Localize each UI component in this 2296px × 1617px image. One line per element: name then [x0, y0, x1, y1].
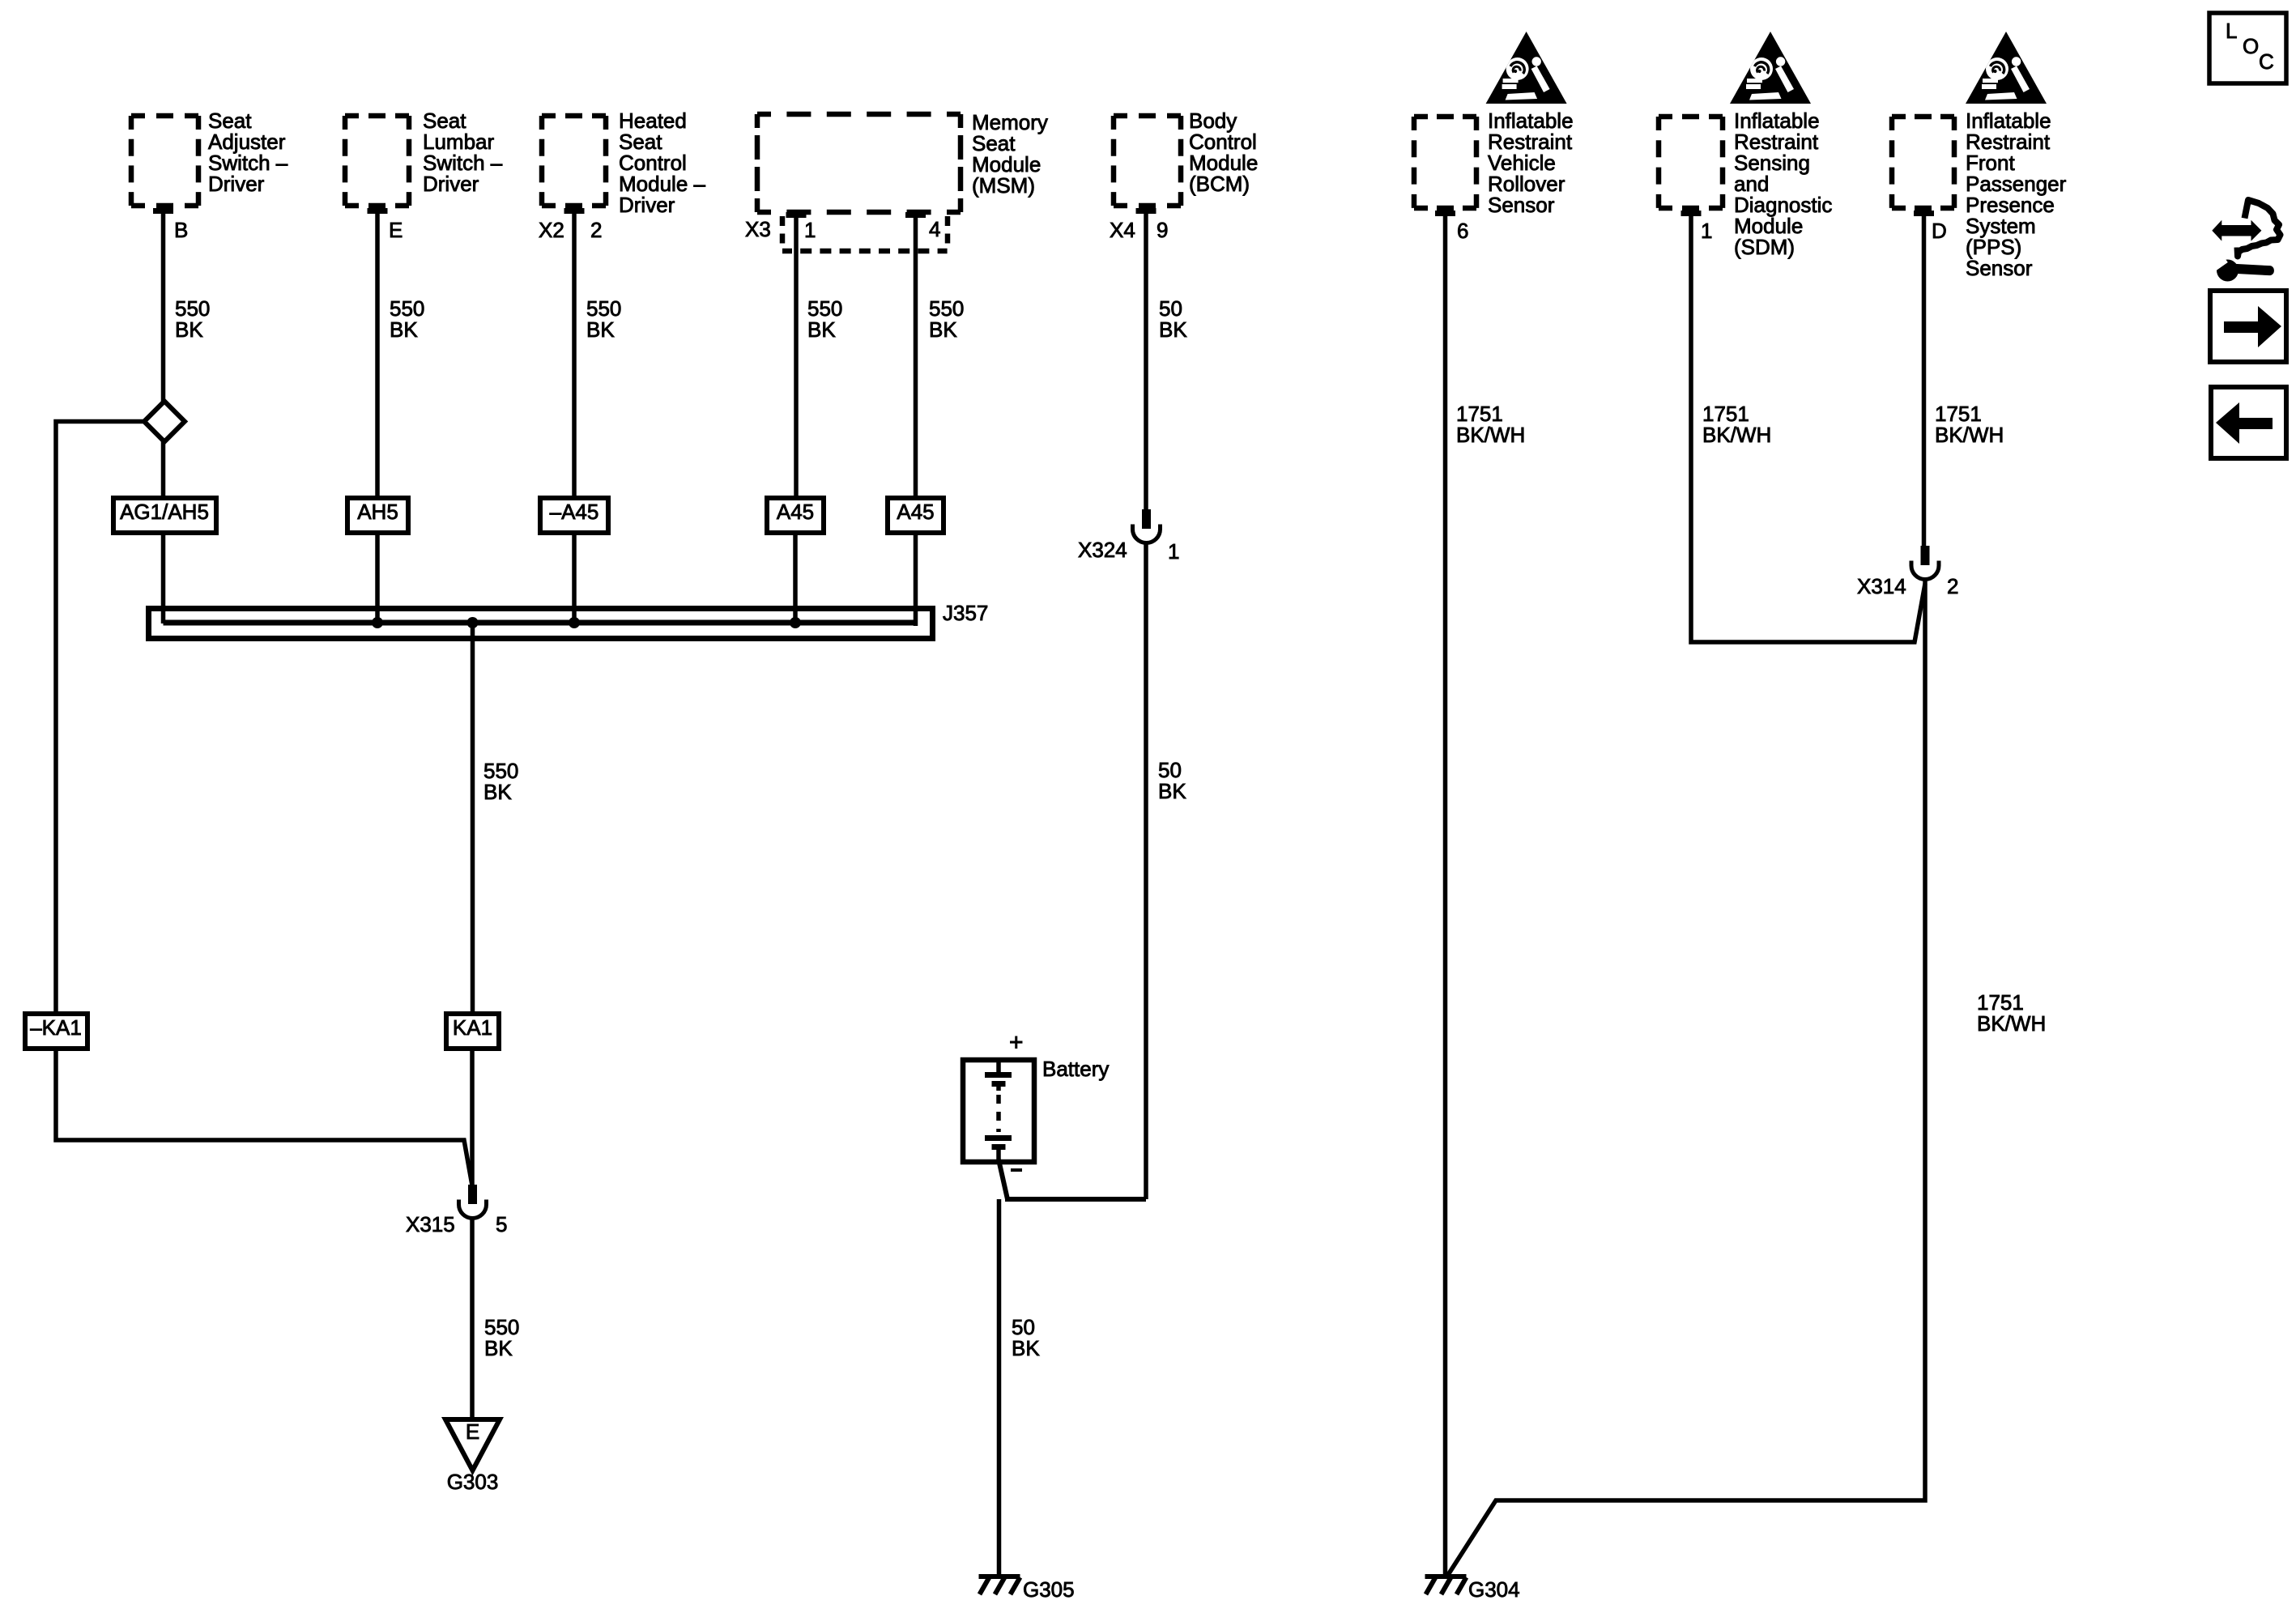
svg-text:B: B: [174, 218, 188, 242]
in-line connector X315 pin 5: [459, 1185, 487, 1219]
connector box: Memory Seat Module MSM (dashed): [757, 114, 961, 212]
fuse box -A45: [540, 498, 608, 533]
wire: splice diamond left branch down to -KA1: [56, 422, 144, 1015]
wire: MSM pin 4 down to fuse A45 (550 BK): [914, 215, 918, 498]
svg-text:BK: BK: [175, 317, 203, 342]
pin B of Seat Adjuster Switch: [153, 208, 188, 242]
svg-text:X314: X314: [1857, 574, 1906, 598]
label pin 1 of X324: [1168, 539, 1179, 564]
label G303: [447, 1470, 499, 1494]
svg-text:4: 4: [929, 217, 940, 241]
wire: X324 down to battery negative junction (50 BK): [1144, 544, 1148, 1199]
connector box: Inflatable Restraint Vehicle Rollover Sensor (dashed): [1414, 117, 1476, 208]
wire label 50 BK (BCM): [1159, 296, 1187, 342]
wire: fuse KA1 down to connector X315: [470, 1049, 475, 1185]
pin E of Seat Lumbar Switch: [368, 208, 403, 242]
wire: X315 down to ground G303 (550 BK): [470, 1219, 475, 1419]
svg-text:6: 6: [1457, 219, 1468, 243]
wire: right fuse A45 down to bus J357: [914, 533, 918, 626]
fuse box -KA1: [25, 1014, 87, 1049]
wire label 1751 BK/WH (SDM): [1702, 402, 1771, 447]
wire: pin B down to splice diamond (550 BK): [161, 211, 166, 402]
wire: rollover sensor pin 6 down to ground G304 (1751 BK/WH): [1443, 213, 1448, 1577]
svg-text:Sensor: Sensor: [1488, 193, 1555, 217]
legend: backward page arrow box: [2211, 387, 2286, 458]
svg-text:G303: G303: [447, 1470, 499, 1494]
wire label 550 BK (to G303): [484, 1315, 519, 1360]
junction dot at A45 on J357: [790, 617, 801, 628]
label X315: [406, 1212, 455, 1236]
wire: pin E down to fuse AH5 (550 BK): [375, 211, 380, 498]
connector box: Inflatable Restraint Front Passenger Presence System PPS Sensor (dashed): [1892, 117, 1954, 208]
wire: bus J357 down to fuse KA1 (550 BK): [471, 623, 475, 1014]
svg-text:2: 2: [1947, 574, 1958, 598]
svg-text:A45: A45: [897, 500, 934, 524]
label G305: [1023, 1577, 1075, 1602]
svg-text:Driver: Driver: [423, 172, 479, 196]
connector box: Heated Seat Control Module - Driver (dashed): [542, 116, 606, 206]
connector box: Seat Lumbar Switch - Driver (dashed): [345, 116, 409, 206]
pin X4-9 of BCM: [1110, 208, 1168, 242]
svg-text:BK: BK: [1012, 1336, 1040, 1360]
svg-text:(MSM): (MSM): [972, 173, 1035, 198]
pin 1 of SDM: [1681, 211, 1713, 243]
svg-text:G304: G304: [1468, 1577, 1520, 1602]
label pin 5 of X315: [496, 1212, 507, 1236]
svg-text:BK: BK: [483, 780, 512, 804]
svg-text:G305: G305: [1023, 1577, 1075, 1602]
legend: forward page arrow box: [2210, 291, 2286, 362]
svg-text:AH5: AH5: [357, 500, 398, 524]
connector box: Seat Adjuster Switch - Driver (dashed): [131, 116, 198, 206]
svg-text:1: 1: [804, 218, 816, 242]
label: Body Control Module (BCM): [1189, 109, 1258, 196]
legend: harness repair hand-and-wrench icon: [2205, 200, 2281, 282]
svg-text:–A45: –A45: [550, 500, 599, 524]
ground symbol G303 (triangle with E): [445, 1419, 500, 1470]
svg-text:5: 5: [496, 1212, 507, 1236]
battery positive label +: [1009, 1029, 1024, 1056]
svg-text:D: D: [1932, 219, 1947, 243]
junction dot at -A45 on J357: [569, 617, 580, 628]
svg-text:–KA1: –KA1: [30, 1015, 82, 1040]
battery cells symbol: [985, 1062, 1012, 1160]
wire: battery negative slant to junction: [999, 1160, 1007, 1199]
warning triangle icon (rollover sensor): [1486, 32, 1567, 104]
svg-text:E: E: [466, 1419, 479, 1444]
splice diamond: [144, 402, 185, 442]
svg-text:+: +: [1009, 1029, 1024, 1056]
wire: junction down to ground G305 (50 BK): [997, 1199, 1002, 1577]
svg-text:AG1/AH5: AG1/AH5: [120, 500, 209, 524]
svg-text:Sensor: Sensor: [1966, 256, 2033, 280]
svg-text:Battery: Battery: [1042, 1057, 1109, 1081]
wire: fuse -A45 down to bus J357: [572, 533, 577, 623]
pin 1 of MSM X3: [786, 212, 816, 242]
svg-text:X2: X2: [539, 218, 564, 242]
svg-text:BK/WH: BK/WH: [1935, 423, 2004, 447]
svg-text:BK: BK: [586, 317, 615, 342]
svg-text:KA1: KA1: [453, 1015, 492, 1040]
fuse box A45 (left): [767, 498, 824, 533]
svg-text:BK: BK: [390, 317, 418, 342]
fuse box A45 (right): [888, 498, 944, 533]
svg-text:1: 1: [1168, 539, 1179, 564]
label: Memory Seat Module (MSM): [972, 110, 1048, 198]
svg-text:Driver: Driver: [619, 193, 675, 217]
fuse box AG1/AH5: [113, 498, 216, 533]
pin 6 of rollover sensor: [1435, 211, 1468, 243]
warning triangle icon (PPS sensor): [1966, 32, 2047, 104]
wire label 550 BK (circuit 4): [807, 296, 842, 342]
ground symbol G305 (chassis): [979, 1577, 1020, 1594]
label X314: [1857, 574, 1906, 598]
wire: fuse AH5 down to bus J357: [375, 533, 380, 623]
label: Inflatable Restraint Sensing and Diagnostic Module (SDM): [1734, 109, 1832, 259]
ground bus J357 (centre conductor): [164, 620, 916, 626]
label X324: [1078, 538, 1127, 562]
connector box: Inflatable Restraint Sensing and Diagnostic Module SDM (dashed): [1659, 117, 1723, 208]
svg-text:X3: X3: [745, 217, 771, 241]
svg-text:O: O: [2243, 34, 2259, 58]
label X3 of MSM connector: [745, 217, 771, 241]
svg-text:C: C: [2259, 49, 2274, 74]
label: Heated Seat Control Module - Driver: [619, 109, 705, 217]
svg-text:X315: X315: [406, 1212, 455, 1236]
fuse box AH5: [347, 498, 408, 533]
fuse box KA1: [446, 1014, 499, 1049]
label: Inflatable Restraint Vehicle Rollover Sensor: [1488, 109, 1574, 217]
svg-text:2: 2: [590, 218, 602, 242]
ground symbol G304 (chassis): [1425, 1577, 1467, 1594]
svg-text:BK: BK: [929, 317, 957, 342]
wire label 550 BK (KA1 drop): [483, 759, 518, 804]
legend: LOC reference box: [2209, 13, 2286, 83]
label: Seat Lumbar Switch - Driver: [423, 109, 503, 196]
wire: diamond down to fuse AG1/AH5: [161, 441, 166, 498]
pin 4 of MSM X3: [905, 212, 940, 241]
wire label 550 BK (circuit 2): [390, 296, 424, 342]
junction dot at AH5 on J357: [372, 617, 383, 628]
wire: PPS pin D down to connector X314 (1751 BK/WH): [1922, 213, 1927, 547]
wire: BCM pin X4-9 down to connector X324 (50 BK): [1144, 211, 1148, 510]
wire: MSM pin 1 down to fuse A45 (550 BK): [794, 215, 799, 498]
ground bus J357 (outer outline): [149, 609, 933, 639]
label J357: [943, 601, 988, 625]
wire: fuse AG1/AH5 down to ground bus J357: [161, 533, 166, 623]
label Battery: [1042, 1057, 1109, 1081]
svg-text:A45: A45: [777, 500, 814, 524]
label: Inflatable Restraint Front Passenger Presence System (PPS) Sensor: [1966, 109, 2067, 280]
svg-text:BK/WH: BK/WH: [1702, 423, 1771, 447]
svg-text:1: 1: [1701, 219, 1712, 243]
wire label 1751 BK/WH (lower): [1977, 990, 2046, 1036]
wire: pin X2-2 down to fuse -A45 (550 BK): [572, 211, 577, 498]
svg-text:X4: X4: [1110, 218, 1135, 242]
pin D of PPS sensor: [1914, 211, 1947, 243]
svg-text:BK/WH: BK/WH: [1456, 423, 1525, 447]
wire: junction across to BCM drop: [1005, 1197, 1146, 1202]
svg-text:X324: X324: [1078, 538, 1127, 562]
wire: X314 down then left to ground G304 (1751 BK/WH): [1446, 581, 1925, 1577]
connector X3 sub-box of MSM (dashed): [782, 216, 948, 251]
wire label 550 BK (circuit 1): [175, 296, 210, 342]
wire label 550 BK (circuit 5): [929, 296, 964, 342]
wire: -KA1 down and across to connector X315: [56, 1049, 472, 1185]
in-line connector X324 pin 1: [1133, 509, 1161, 543]
svg-text:J357: J357: [943, 601, 988, 625]
svg-text:BK: BK: [807, 317, 836, 342]
svg-text:9: 9: [1157, 218, 1168, 242]
wire label 50 BK (below X324): [1158, 758, 1186, 803]
battery negative label -: [1011, 1168, 1022, 1172]
svg-text:BK: BK: [1158, 779, 1186, 803]
svg-text:L: L: [2226, 19, 2237, 43]
svg-text:BK/WH: BK/WH: [1977, 1011, 2046, 1036]
label pin 2 of X314: [1947, 574, 1958, 598]
svg-text:BK: BK: [1159, 317, 1187, 342]
battery box: [963, 1060, 1034, 1162]
label G304: [1468, 1577, 1520, 1602]
wire label 50 BK (to G305): [1012, 1315, 1040, 1360]
wire: left fuse A45 down to bus J357: [793, 533, 798, 623]
svg-text:BK: BK: [484, 1336, 513, 1360]
warning triangle icon (SDM): [1730, 32, 1811, 104]
pin X2-2 of Heated Seat Control Module: [539, 208, 602, 242]
wire label 1751 BK/WH (rollover): [1456, 402, 1525, 447]
connector box: Body Control Module BCM (dashed): [1114, 116, 1181, 206]
junction dot at KA1 drop on J357: [467, 617, 479, 628]
wire: SDM pin 1 down and right to connector X314 (1751 BK/WH): [1691, 213, 1925, 642]
in-line connector X314 pin 2: [1911, 546, 1939, 580]
label: Seat Adjuster Switch - Driver: [208, 109, 288, 196]
wire label 1751 BK/WH (PPS upper): [1935, 402, 2004, 447]
svg-text:(SDM): (SDM): [1734, 235, 1795, 259]
svg-text:E: E: [389, 218, 403, 242]
wire label 550 BK (circuit 3): [586, 296, 621, 342]
svg-text:Driver: Driver: [208, 172, 265, 196]
svg-text:(BCM): (BCM): [1189, 172, 1250, 196]
